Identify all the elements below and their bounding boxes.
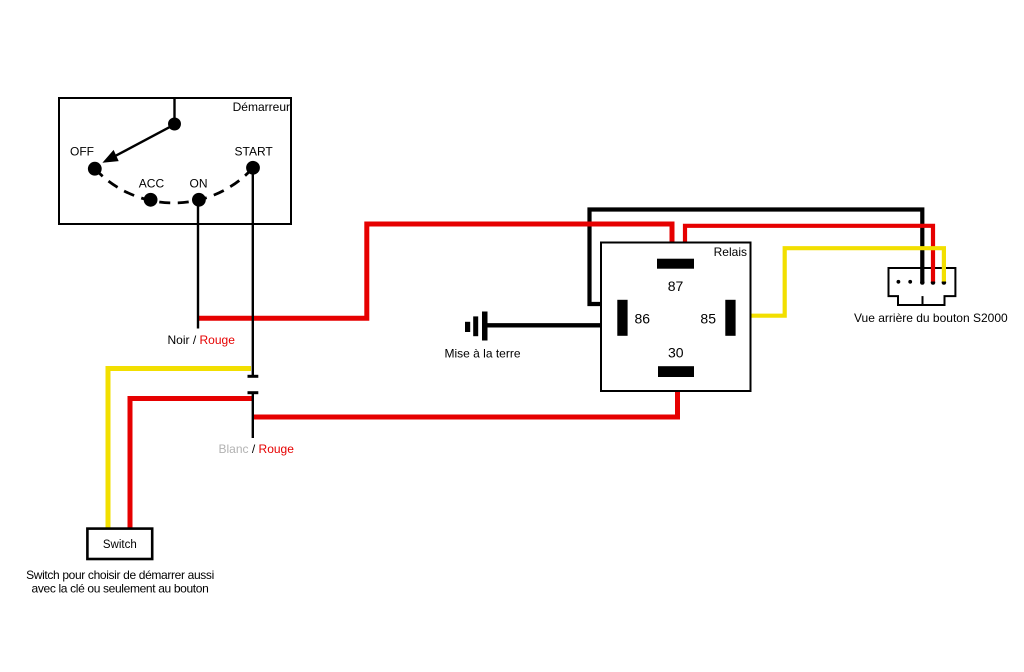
wire black: relay 86 loop over top to button connector bbox=[590, 210, 923, 305]
node START bbox=[246, 161, 260, 175]
relay pin 86 blade bbox=[617, 300, 627, 336]
switch S1 box bbox=[87, 529, 152, 559]
terminal dot black at connector bbox=[920, 280, 925, 285]
svg-text:Démarreur: Démarreur bbox=[233, 100, 290, 114]
plug terminal T-bar lower bbox=[248, 391, 259, 394]
dashed arc through OFF ACC ON START bbox=[95, 168, 253, 203]
wire black: ground to relay 86 bbox=[487, 323, 602, 327]
wire yellow: START branch to switch bbox=[108, 369, 251, 529]
wire red: ON junction up and over to relay 87 bbox=[198, 224, 673, 318]
connector keying dot 1 bbox=[897, 280, 901, 284]
svg-text:ON: ON bbox=[190, 177, 208, 191]
terminal dot yellow at connector bbox=[942, 280, 947, 285]
svg-text:30: 30 bbox=[668, 345, 684, 361]
svg-text:Switch: Switch bbox=[103, 539, 137, 551]
svg-text:OFF: OFF bbox=[70, 145, 94, 159]
svg-text:avec la clé ou seulement au bo: avec la clé ou seulement au bouton bbox=[32, 582, 209, 596]
connector keying dot 2 bbox=[908, 280, 912, 284]
svg-text:Relais: Relais bbox=[714, 245, 747, 259]
wire black: ON dot down to Noir/Rouge junction bbox=[197, 203, 199, 329]
wire: stem from box top edge to pivot bbox=[173, 98, 175, 124]
wire red: Blanc/Rouge junction to relay 30 bbox=[253, 391, 678, 417]
node OFF bbox=[88, 162, 102, 176]
plug terminal T-bar upper bbox=[248, 375, 259, 378]
ground symbol GND bbox=[465, 312, 488, 341]
svg-text:START: START bbox=[235, 145, 274, 159]
wire red: lower plug terminal to switch bbox=[130, 399, 253, 529]
svg-text:Blanc / Rouge: Blanc / Rouge bbox=[219, 442, 295, 456]
node ON bbox=[192, 193, 206, 207]
relay pin 30 blade bbox=[658, 366, 694, 377]
wire yellow: relay 85 to button connector bbox=[751, 248, 944, 316]
svg-text:Mise à la terre: Mise à la terre bbox=[445, 347, 521, 361]
node: pivot dot bbox=[168, 118, 181, 131]
relay K1 box bbox=[601, 243, 751, 392]
S2000 button connector J1 body bbox=[889, 268, 956, 305]
wire black: START dot down to plug terminal bbox=[252, 171, 254, 375]
svg-text:85: 85 bbox=[700, 310, 716, 326]
svg-text:ACC: ACC bbox=[139, 177, 165, 191]
wire black: lower terminal stem down past red junctions bbox=[252, 393, 254, 438]
svg-text:87: 87 bbox=[668, 278, 684, 294]
svg-text:86: 86 bbox=[635, 310, 651, 326]
wire red: relay 87 to button connector bbox=[685, 226, 933, 282]
switch arm arrow from pivot toward OFF bbox=[102, 125, 174, 163]
relay pin 85 blade bbox=[725, 300, 735, 336]
relay pin 87 blade bbox=[657, 259, 694, 269]
svg-text:Vue arrière du bouton S2000: Vue arrière du bouton S2000 bbox=[854, 311, 1008, 325]
ignition switch box U1 (Démarreur) bbox=[59, 98, 291, 224]
node ACC bbox=[144, 193, 158, 207]
svg-text:Switch pour choisir de démarre: Switch pour choisir de démarrer aussi bbox=[26, 568, 214, 582]
svg-text:Noir / Rouge: Noir / Rouge bbox=[168, 333, 236, 347]
terminal dot red at connector bbox=[931, 280, 936, 285]
connector center key notch bbox=[922, 296, 924, 305]
